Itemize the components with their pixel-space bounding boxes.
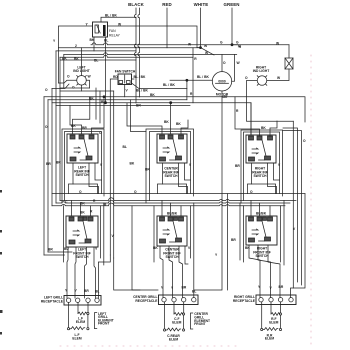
wire fan switch diag BL/BK (132, 83, 187, 93)
svg-text:BR: BR (84, 289, 89, 293)
svg-text:O: O (245, 76, 248, 80)
svg-text:0000: 0000 (218, 80, 226, 84)
svg-text:O: O (67, 75, 70, 79)
svg-text:G: G (220, 41, 223, 45)
svg-text:R: R (236, 109, 239, 113)
svg-text:Y: Y (53, 39, 56, 43)
svg-text:BK: BK (153, 246, 158, 250)
wire BL to left receptacle (98, 255, 110, 298)
wire red drop (166, 8, 168, 48)
svg-text:O: O (79, 190, 82, 194)
svg-text:BK: BK (164, 120, 169, 124)
svg-text:FRONT: FRONT (194, 322, 205, 326)
svg-text:V: V (161, 286, 164, 290)
wire left bundle (44, 51, 60, 255)
wire bus top3 (56, 50, 136, 52)
svg-text:BL / BK: BL / BK (134, 75, 146, 79)
wire vertical drops lights row (96, 88, 114, 258)
receptacle right grill (233, 285, 296, 305)
svg-text:BK: BK (80, 211, 85, 215)
svg-text:RECEPTACLE: RECEPTACLE (233, 299, 256, 303)
svg-text:V: V (100, 163, 103, 167)
switch right front S7 (246, 216, 277, 258)
element center rear lower (163, 302, 184, 341)
wire resistor to lamp W (267, 69, 289, 81)
element right rear lower (261, 302, 282, 341)
svg-text:V: V (126, 89, 129, 93)
svg-text:W: W (88, 75, 92, 79)
switch right rear S4 (246, 135, 276, 178)
switch center front S6 (157, 216, 187, 259)
svg-text:RED: RED (162, 2, 172, 7)
svg-text:FAN SWITCH: FAN SWITCH (115, 70, 136, 74)
svg-text:BK: BK (150, 93, 155, 97)
wire black pair (134, 8, 139, 103)
wire BL/BK relay top (101, 14, 136, 23)
svg-text:BL: BL (95, 290, 99, 294)
wire bus top6 (60, 55, 136, 89)
svg-text:BL / BK: BL / BK (163, 83, 175, 87)
svg-text:R: R (190, 92, 193, 96)
svg-text:SWITCH: SWITCH (255, 254, 269, 258)
svg-text:BL: BL (192, 290, 196, 294)
svg-text:R: R (194, 57, 197, 61)
svg-text:RECEPTACLE: RECEPTACLE (41, 299, 64, 303)
scan artifact dotted right edge (310, 55, 312, 345)
svg-text:O: O (223, 61, 226, 65)
receptacle center grill (133, 286, 198, 305)
wire relay pin BL (94, 37, 108, 104)
svg-text:V: V (278, 163, 281, 167)
wire right lamp left O (245, 76, 306, 143)
wire bus top5 (60, 55, 193, 57)
svg-text:BK: BK (245, 246, 250, 250)
svg-text:ELEM: ELEM (76, 320, 85, 324)
fan relay K1 (93, 22, 121, 38)
wire motor top O (222, 55, 226, 72)
scan artifact dotted bottom edge (60, 345, 240, 347)
wire center rear switch loop (123, 129, 194, 203)
element left front upper (76, 302, 89, 324)
wire right tall verticals (283, 121, 301, 288)
svg-text:BU: BU (64, 247, 69, 251)
wire white drop (200, 8, 202, 48)
wire harness h5 short (60, 87, 90, 89)
switch left front S5 (66, 216, 98, 259)
wire bus top1 (91, 42, 289, 47)
scan artifact left edge specks (0, 190, 3, 335)
svg-text:BL / BK: BL / BK (136, 89, 148, 93)
wire right front feeds (231, 201, 270, 243)
svg-text:BL: BL (104, 39, 108, 43)
svg-text:BK: BK (130, 162, 135, 166)
wire right rear switch feeds (235, 97, 277, 136)
svg-text:BK: BK (74, 57, 79, 61)
wire harness h2 (48, 100, 187, 104)
svg-text:V: V (270, 286, 273, 290)
svg-text:V: V (189, 163, 192, 167)
ground arrow (220, 41, 241, 48)
svg-text:ELEM: ELEM (72, 336, 81, 340)
wire harness h1 (44, 93, 305, 122)
wire center front loop (154, 203, 194, 298)
svg-text:BR: BR (46, 162, 51, 166)
wire bus top4 (64, 51, 237, 55)
switch center rear S3 (157, 134, 187, 178)
wire left front feeds (72, 201, 94, 217)
svg-text:BL: BL (94, 59, 98, 63)
wire motor left BL/BK (163, 75, 212, 87)
svg-text:Y: Y (258, 285, 261, 289)
svg-text:RELAY: RELAY (109, 34, 121, 38)
wire W relay right (108, 23, 201, 48)
svg-text:W: W (277, 76, 281, 80)
wire left bundle ends (44, 254, 65, 256)
svg-text:WHITE: WHITE (194, 2, 209, 7)
element center front upper (172, 302, 184, 325)
svg-text:FRONT: FRONT (98, 322, 109, 326)
svg-text:RECEPTACLE: RECEPTACLE (135, 299, 158, 303)
svg-text:BR: BR (279, 285, 284, 289)
svg-text:BL/BK: BL/BK (256, 212, 267, 216)
svg-text:BL: BL (123, 145, 127, 149)
svg-text:O: O (72, 86, 75, 90)
svg-text:BR: BR (56, 161, 61, 165)
svg-text:BR: BR (48, 248, 53, 252)
svg-text:O: O (45, 88, 48, 92)
wire right front loop (240, 201, 284, 266)
svg-text:BK: BK (71, 124, 76, 128)
svg-text:BR: BR (235, 164, 240, 168)
svg-text:V: V (293, 227, 296, 231)
svg-text:BK: BK (90, 38, 95, 42)
lamp right indicator (253, 66, 269, 86)
bracket left element label (95, 312, 114, 329)
svg-text:IND LIGHT: IND LIGHT (253, 69, 269, 73)
wire green drop (231, 8, 233, 45)
svg-text:BL/BK: BL/BK (167, 212, 178, 216)
svg-text:Y: Y (215, 253, 218, 257)
svg-text:SWITCH: SWITCH (165, 255, 179, 259)
wire harness h3 (52, 101, 251, 135)
wire harness h4 (56, 105, 190, 107)
wire R drop (190, 48, 197, 103)
svg-text:BK: BK (261, 126, 266, 130)
wire left rear switch loop (56, 129, 104, 203)
wire left front outputs (48, 247, 98, 298)
svg-text:BR: BR (145, 168, 150, 172)
wire bus mid3 (56, 200, 290, 205)
svg-text:2: 2 (75, 44, 77, 48)
bracket center element label (191, 312, 211, 329)
resistor right loop (285, 58, 293, 69)
wire left lamp left O (59, 48, 77, 90)
element right front upper (269, 302, 281, 325)
svg-text:W: W (188, 42, 192, 46)
svg-text:O: O (250, 190, 253, 194)
svg-text:O: O (303, 139, 306, 143)
svg-text:SWITCH: SWITCH (164, 174, 178, 178)
wire center front feeds (162, 201, 181, 217)
wire bus mid4 (52, 203, 285, 207)
svg-text:BK: BK (176, 122, 181, 126)
svg-text:BL / BK: BL / BK (105, 14, 117, 18)
node white junction (199, 46, 202, 49)
wire motor bottom BR (194, 91, 228, 290)
wire fan switch bottom V (125, 85, 129, 97)
wire relay pin BK (62, 37, 95, 61)
wire bus top2 (59, 44, 201, 48)
wire fan switch left (110, 79, 118, 97)
svg-text:RD: RD (113, 75, 118, 79)
wire Y relay left (53, 23, 93, 48)
svg-text:R: R (104, 203, 107, 207)
motor M1 (212, 72, 231, 97)
svg-text:BR: BR (231, 238, 236, 242)
wire V right vertical (291, 194, 306, 298)
wire center receptacle left vertical (132, 206, 158, 290)
switch left rear S2 (67, 134, 98, 177)
wire fan switch right BL/BK (132, 75, 146, 79)
wire center front outputs (153, 246, 191, 298)
wire V left vertical (112, 234, 115, 238)
wire motor line switch (201, 44, 215, 55)
wire resistor top (288, 45, 290, 58)
node green junction (231, 43, 234, 46)
svg-text:Y: Y (171, 286, 174, 290)
svg-text:SWITCH: SWITCH (75, 255, 89, 259)
svg-text:Y: Y (65, 289, 68, 293)
wire left front loop (64, 203, 104, 265)
lamp left indicator (73, 57, 89, 85)
svg-text:GREEN: GREEN (223, 2, 239, 7)
wire bus mid O (52, 190, 305, 194)
svg-text:BR: BR (182, 286, 187, 290)
svg-text:BL: BL (101, 100, 105, 104)
svg-text:ELEM: ELEM (169, 337, 178, 341)
wire bus mid2 (60, 198, 296, 204)
svg-text:SWITCH: SWITCH (253, 174, 267, 178)
svg-text:BLACK: BLACK (128, 2, 145, 7)
wire motor right W loop (232, 55, 241, 82)
svg-text:O: O (45, 125, 48, 129)
wire center rear switch feeds (127, 100, 188, 134)
svg-text:R: R (93, 199, 96, 203)
svg-text:V: V (75, 289, 78, 293)
element left rear lower (67, 302, 89, 340)
receptacle left grill (41, 289, 101, 306)
wire right rear switch loop (235, 130, 283, 203)
wire left lamp right (52, 75, 92, 92)
svg-text:ELEM: ELEM (269, 321, 278, 325)
svg-text:G: G (236, 41, 239, 45)
wire left rear switch feeds (70, 97, 104, 135)
fan switch S1 (113, 70, 136, 85)
svg-text:SWITCH: SWITCH (75, 173, 89, 177)
svg-text:R: R (90, 210, 93, 214)
svg-text:BR: BR (82, 126, 87, 130)
svg-text:FAN: FAN (109, 29, 116, 33)
wire right front outputs (215, 245, 280, 298)
wire left lamp top (81, 48, 83, 76)
wire harness h6 (45, 88, 114, 92)
svg-text:W: W (237, 61, 241, 65)
svg-text:ELEM: ELEM (172, 321, 181, 325)
svg-text:O: O (134, 190, 137, 194)
wire from dot down (186, 80, 188, 100)
svg-text:BL / BK: BL / BK (197, 75, 209, 79)
svg-text:ELEM: ELEM (265, 337, 274, 341)
